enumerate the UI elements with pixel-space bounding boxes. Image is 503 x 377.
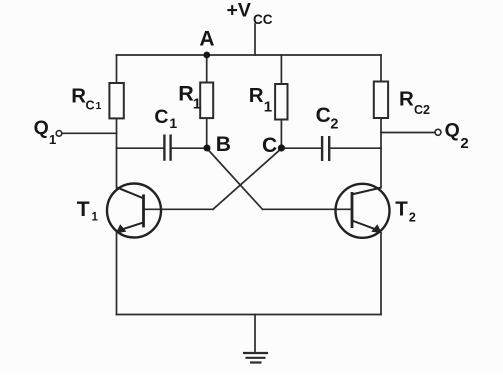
resistor RC2 (374, 82, 388, 119)
capacitor C1 plates (164, 135, 170, 161)
svg-text:C: C (262, 134, 277, 157)
wire: R1 left bottom lead to node B (206, 118, 208, 148)
svg-text:C: C (86, 99, 95, 113)
resistor R1 (right) (275, 84, 287, 120)
wire: R1 left top lead from node A (206, 55, 208, 83)
svg-text:2: 2 (409, 210, 416, 224)
node A junction dot (203, 52, 210, 59)
capacitor C2 plates (322, 136, 329, 161)
svg-text:Q: Q (34, 117, 49, 139)
label C2 (316, 104, 339, 132)
label R1 (right) (249, 84, 272, 116)
svg-text:1: 1 (264, 99, 272, 116)
wire: Q1 output lead (62, 132, 117, 134)
label T2 (395, 197, 416, 224)
terminal Q1 open circle (56, 131, 62, 137)
label T1 (77, 198, 99, 224)
transistor T1 (107, 184, 161, 238)
wire: right rail top segment (380, 55, 382, 82)
wire: C2 right segment (330, 147, 381, 149)
svg-text:2: 2 (330, 117, 338, 133)
wire: R1 right bottom lead to node C (280, 120, 282, 149)
label RC1 (71, 84, 101, 112)
wire: Vcc stem (254, 24, 256, 55)
wire: C1 left segment (117, 147, 165, 149)
wire: ground stem (254, 315, 256, 353)
node C junction dot (278, 144, 285, 151)
resistor RC1 (109, 83, 123, 118)
wire: T1 emitter lead (116, 233, 118, 315)
svg-text:1: 1 (169, 115, 177, 131)
svg-text:+V: +V (227, 0, 251, 22)
svg-text:C: C (154, 106, 168, 128)
wire: left rail top segment (116, 55, 118, 83)
svg-text:C: C (316, 104, 331, 127)
svg-text:1: 1 (92, 212, 99, 224)
wire: right rail RC2 bottom to T2 collector (380, 118, 382, 188)
wire: diagonal T1 base to node C (213, 149, 281, 210)
ground symbol (243, 353, 268, 363)
wire: C2 left segment from node C (281, 147, 321, 149)
svg-text:A: A (199, 28, 214, 51)
svg-text:B: B (216, 133, 231, 156)
svg-text:2: 2 (460, 135, 468, 152)
svg-text:R: R (249, 84, 264, 107)
svg-text:CC: CC (253, 12, 273, 27)
label R1 (left) (178, 82, 201, 113)
wire: R1 right top lead (280, 55, 282, 84)
svg-text:T: T (395, 197, 408, 220)
wire: left rail RC1 bottom to T1 collector (116, 118, 118, 188)
transistor T2 (336, 184, 390, 238)
node B junction dot (204, 145, 211, 152)
wire: Q2 output lead (381, 132, 435, 134)
svg-text:R: R (71, 84, 86, 107)
label +Vcc (227, 0, 273, 27)
label RC2 (399, 87, 430, 117)
svg-text:T: T (77, 198, 90, 221)
wire: top +Vcc rail (117, 54, 382, 56)
wire: diagonal node B to T2 base (207, 149, 263, 210)
wire: T2 base horizontal segment (263, 208, 353, 210)
terminal Q2 open circle (435, 129, 441, 135)
wire: bottom ground rail (117, 314, 382, 316)
svg-text:R: R (178, 82, 194, 106)
wire: C1 right segment to node B (171, 147, 207, 149)
svg-text:1: 1 (193, 97, 201, 113)
wire: T2 emitter lead (380, 233, 382, 315)
label C1 (154, 106, 177, 131)
resistor R1 (left) (200, 83, 213, 119)
svg-text:1: 1 (49, 132, 56, 147)
svg-text:Q: Q (445, 120, 460, 142)
svg-text:R: R (399, 87, 414, 110)
svg-text:1: 1 (96, 100, 102, 112)
wire: T1 base horizontal segment (144, 208, 214, 210)
label Q2 (445, 120, 469, 152)
svg-text:C2: C2 (414, 103, 430, 117)
label Q1 (34, 117, 57, 147)
